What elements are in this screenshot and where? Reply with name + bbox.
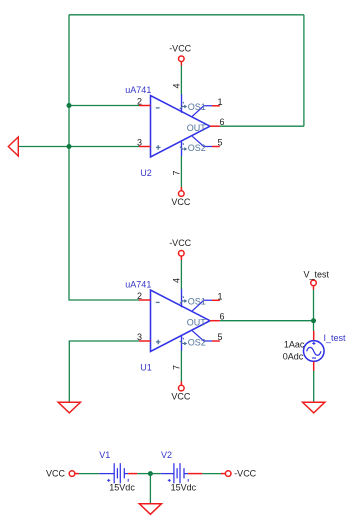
V1 plate long 1 <box>113 463 115 483</box>
op-amp U2 pin 4 line <box>181 94 183 113</box>
svg-text:5: 5 <box>217 138 222 148</box>
svg-text:OS2: OS2 <box>188 143 206 153</box>
svg-text:3: 3 <box>137 138 142 148</box>
op-amp U2 body <box>151 96 211 158</box>
offpage connector left <box>8 137 18 156</box>
V2 left lead <box>161 473 174 475</box>
wire V1 to center junction <box>137 473 150 475</box>
power terminal -VCC for U2 <box>169 44 191 95</box>
terminal circle VCC U1 <box>179 385 185 391</box>
I_test plus mark <box>312 342 315 345</box>
wire U1 output to I_test node <box>220 320 314 322</box>
op-amp U2 OS2 arrow glyph <box>180 143 186 150</box>
wire U2 pin2 branch <box>69 105 139 107</box>
op-amp U1 minus mark <box>156 301 160 303</box>
terminal circle VCC left <box>69 471 75 477</box>
wire I_test to ground <box>313 371 315 402</box>
V2 plus mark <box>168 479 171 482</box>
svg-text:15Vdc: 15Vdc <box>171 483 197 493</box>
V2 plate long 2 <box>179 463 181 483</box>
V1 plus mark <box>107 479 110 482</box>
terminal circle -VCC right <box>225 471 231 477</box>
I_test minus mark <box>312 357 316 359</box>
terminal pin stub V_test <box>313 286 315 290</box>
power terminal VCC for U1 <box>171 351 191 402</box>
svg-text:OS1: OS1 <box>188 102 206 112</box>
op-amp U2 pin 5 stub <box>212 146 220 148</box>
terminal pin stub VCC U1 <box>180 381 182 385</box>
op-amp U2 minus mark <box>156 107 160 109</box>
op-amp U1 plus mark <box>156 340 161 345</box>
I_test body circle <box>304 341 325 362</box>
svg-text:VCC: VCC <box>171 197 191 207</box>
op-amp U1 pin 1 stub <box>212 299 220 301</box>
battery V1 <box>99 450 137 492</box>
ground below I_test <box>303 402 325 413</box>
svg-text:VCC: VCC <box>171 392 191 402</box>
svg-text:-VCC: -VCC <box>234 468 256 478</box>
op-amp U1 <box>125 278 224 372</box>
svg-text:uA741: uA741 <box>125 279 151 289</box>
terminal pin stub VCC U2 <box>180 187 182 191</box>
svg-text:OUT: OUT <box>187 123 207 133</box>
svg-text:6: 6 <box>219 117 224 127</box>
wire left vertical bus and U1 pin2 branch <box>69 15 139 300</box>
wire feedback top rail <box>69 14 304 16</box>
op-amp U2 OS1 arrow glyph <box>180 102 186 109</box>
wire VCC terminal to V1 <box>79 473 100 475</box>
terminal circle -VCC U1 <box>179 251 185 257</box>
V1 right lead <box>124 473 128 475</box>
wire VCC terminal to U2 pin7 <box>180 156 182 187</box>
op-amp U2 <box>125 83 224 177</box>
terminal pin stub -VCC right <box>221 473 226 475</box>
I_test pin stub bottom <box>313 361 315 371</box>
svg-text:4: 4 <box>171 278 181 283</box>
svg-text:V2: V2 <box>161 450 172 460</box>
svg-text:15Vdc: 15Vdc <box>109 483 135 493</box>
node junction at pin2 bus <box>67 103 72 108</box>
svg-text:uA741: uA741 <box>125 85 151 95</box>
V2 plate short 2 <box>183 468 185 478</box>
node center junction bottom rail <box>148 471 153 476</box>
wire U2 output to feedback <box>220 125 304 127</box>
V2 plate short 1 <box>176 468 178 478</box>
svg-text:7: 7 <box>171 365 181 370</box>
V1 plate long 2 <box>119 463 121 483</box>
op-amp U1 pin 4 line <box>181 289 183 308</box>
I_test pin stub top <box>313 331 315 341</box>
svg-text:7: 7 <box>171 170 181 175</box>
terminal circle VCC U2 <box>179 191 185 197</box>
svg-text:4: 4 <box>171 83 181 88</box>
svg-text:0Adc: 0Adc <box>283 352 304 362</box>
op-amp U1 OS2 arrow glyph <box>180 338 186 345</box>
svg-text:6: 6 <box>219 312 224 322</box>
current source I_test <box>283 331 346 413</box>
terminal pin stub -VCC U2 <box>180 62 182 66</box>
wire offpage to U2 pin3 <box>18 146 139 148</box>
terminal pin stub -VCC U1 <box>180 256 182 260</box>
V1 left lead <box>99 473 114 475</box>
svg-text:2: 2 <box>137 291 142 301</box>
V_test terminal branch <box>304 270 330 332</box>
svg-text:5: 5 <box>217 332 222 342</box>
svg-text:V1: V1 <box>99 450 110 460</box>
op-amp U1 pin 5 line <box>192 331 212 341</box>
I_test sine wave <box>307 347 321 355</box>
svg-text:V_test: V_test <box>304 270 330 280</box>
node junction at I_test top <box>311 318 316 323</box>
wire feedback right vertical <box>303 15 305 126</box>
svg-text:2: 2 <box>137 97 142 107</box>
wire junction to V2 <box>150 473 160 475</box>
svg-text:1Aac: 1Aac <box>284 339 305 349</box>
op-amp U1 pin 1 line <box>192 300 212 311</box>
svg-text:-VCC: -VCC <box>169 238 191 248</box>
svg-text:3: 3 <box>137 332 142 342</box>
op-amp U2 pin 6 stub <box>210 125 220 127</box>
op-amp U1 pin 5 stub <box>212 340 220 342</box>
V1 minus mark <box>127 479 129 482</box>
V1 pin stub right <box>128 473 137 475</box>
V2 pin stub right <box>188 473 202 475</box>
svg-text:-VCC: -VCC <box>169 44 191 54</box>
battery V2 <box>161 450 203 492</box>
wire -VCC terminal to U2 pin4 <box>180 65 182 94</box>
op-amp U1 pin 7 line <box>181 336 183 351</box>
op-amp U1 body <box>151 290 211 352</box>
op-amp U1 pin 6 stub <box>210 320 220 322</box>
op-amp U2 pin 1 line <box>192 106 212 117</box>
op-amp U1 pin 3 stub <box>139 340 151 342</box>
svg-text:U2: U2 <box>140 168 152 178</box>
svg-text:OS1: OS1 <box>188 297 206 307</box>
terminal pin stub VCC left <box>75 473 79 475</box>
op-amp U2 pin 2 stub <box>139 105 151 107</box>
wire VCC terminal to U1 pin7 <box>180 351 182 382</box>
wire U1 pin3 to ground <box>69 341 139 402</box>
terminal circle V_test <box>311 280 317 286</box>
op-amp U2 plus mark <box>156 145 161 150</box>
V2 plate long 1 <box>173 463 175 483</box>
op-amp U1 pin 2 stub <box>139 299 151 301</box>
svg-text:1: 1 <box>217 97 222 107</box>
V1 plate short 2 <box>123 468 125 478</box>
V2 minus mark <box>187 479 189 482</box>
op-amp U2 pin 5 line <box>192 136 212 146</box>
wire junction to bottom ground <box>149 474 151 504</box>
power terminal VCC for U2 <box>171 156 191 207</box>
svg-text:OUT: OUT <box>187 317 207 327</box>
node junction at pin3 bus <box>67 144 72 149</box>
wire V_test to I_test <box>313 289 315 331</box>
wire V2 to -VCC terminal <box>202 473 221 475</box>
svg-text:U1: U1 <box>140 362 152 372</box>
ground below U1 <box>58 402 80 413</box>
op-amp U1 OS1 arrow glyph <box>180 296 186 303</box>
op-amp U2 pin 1 stub <box>212 105 220 107</box>
V2 right lead <box>184 473 188 475</box>
op-amp U2 pin 7 line <box>181 142 183 157</box>
wire -VCC terminal to U1 pin4 <box>180 260 182 289</box>
svg-text:OS2: OS2 <box>188 338 206 348</box>
power terminal -VCC for U1 <box>169 238 191 289</box>
op-amp U2 pin 3 stub <box>139 146 151 148</box>
svg-text:I_test: I_test <box>324 333 347 343</box>
ground bottom center <box>139 504 161 515</box>
V1 plate short 1 <box>116 468 118 478</box>
svg-text:VCC: VCC <box>46 468 66 478</box>
terminal circle -VCC U2 <box>179 56 185 62</box>
svg-text:1: 1 <box>217 291 222 301</box>
bottom supply rail <box>46 468 99 478</box>
